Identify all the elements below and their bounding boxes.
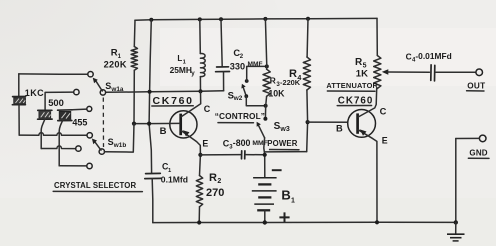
battery B1 plate short 1 xyxy=(258,183,271,185)
wire Q1 emitter lead xyxy=(181,131,200,155)
switch Sw2 wiper arrowhead xyxy=(241,84,245,89)
ground symbol stem xyxy=(455,222,457,234)
svg-text:-0.01MFd: -0.01MFd xyxy=(415,51,451,61)
svg-text:0.1Mfd: 0.1Mfd xyxy=(161,175,188,185)
junction dot bus-L1 xyxy=(198,17,202,21)
label minus xyxy=(272,169,282,171)
crystal Y3 455 bottom plate xyxy=(58,120,72,122)
svg-text:270: 270 xyxy=(206,187,224,199)
wiper arrow of R5 attenuator xyxy=(382,69,389,74)
switch Sw1b contact 2 xyxy=(76,146,81,151)
svg-text:OUT: OUT xyxy=(467,81,485,90)
underline GND xyxy=(468,157,489,159)
wire 500 row to contact 2 (with hop) xyxy=(41,146,75,149)
switch Sw1a wiper xyxy=(96,81,102,91)
battery B1 plate short 3 xyxy=(257,209,270,211)
svg-text:B: B xyxy=(336,124,343,134)
svg-text:w1b: w1b xyxy=(113,142,127,149)
svg-text:S: S xyxy=(108,137,114,147)
svg-text:10K: 10K xyxy=(268,89,285,99)
switch Sw1a wiper arrowhead xyxy=(93,78,98,84)
wire tank to base wire crossing xyxy=(148,92,151,124)
junction dot R3 top tap xyxy=(265,64,269,68)
wire Sw3 pivot down to power node xyxy=(264,138,265,178)
wire Q2 emitter lead xyxy=(358,130,377,223)
resistor R2 xyxy=(196,176,202,207)
crystal Y1 1KC top plate xyxy=(13,96,26,98)
wire ground riser xyxy=(455,139,457,223)
svg-text:C: C xyxy=(406,51,412,61)
inductor L1 xyxy=(200,53,205,76)
svg-text:ATTENUATOR: ATTENUATOR xyxy=(326,81,378,90)
junction dot bus-R3 xyxy=(263,17,267,21)
svg-text:GND: GND xyxy=(469,149,487,158)
underline CRYSTAL SELECTOR xyxy=(53,190,142,192)
crystal selector: left riser wire xyxy=(18,74,20,97)
switch Sw1b wiper xyxy=(95,142,101,150)
wire Q2 base lead xyxy=(308,121,357,123)
junction dot bus-ground symbol xyxy=(454,220,458,224)
wire 455 row to Sw1b contact 3 xyxy=(59,165,87,167)
wire Q1 base lead xyxy=(134,122,180,124)
junction dot bus-Q2 emitter xyxy=(375,220,379,224)
emitter arrow Q1 xyxy=(183,130,190,136)
wire battery bottom to ground bus xyxy=(264,210,266,222)
crystal Y2 500 top plate xyxy=(38,109,52,111)
resistor R3 xyxy=(263,69,270,96)
ground symbol bar 1 xyxy=(447,233,465,235)
svg-text:220K: 220K xyxy=(104,60,127,70)
wire Q2 collector lead xyxy=(358,89,377,118)
junction dot bus-C2 xyxy=(219,17,223,21)
capacitor C4 left plate xyxy=(430,65,432,81)
underline ATTENUATOR xyxy=(327,90,375,92)
wire bus to C2 top xyxy=(221,19,222,66)
capacitor C3 left plate xyxy=(241,151,243,159)
crystal Y2 500 bottom plate xyxy=(38,118,53,120)
wire emitter node to C3 xyxy=(200,154,240,156)
underline OUT xyxy=(467,90,484,92)
wire R4 bottom through Q2 base node to power wire xyxy=(306,90,309,152)
svg-text:330: 330 xyxy=(230,61,245,71)
battery B1 plate long 1 xyxy=(253,177,277,179)
capacitor C2 top plate xyxy=(217,66,229,68)
svg-text:E: E xyxy=(202,139,208,149)
wire Q1 collector lead xyxy=(181,91,201,117)
junction dot base-R1-Sw1b xyxy=(132,122,136,126)
crystal Y1 hatch xyxy=(16,99,26,104)
svg-text:B: B xyxy=(160,126,167,137)
svg-text:MMF: MMF xyxy=(252,140,267,147)
junction dot base-C1 string xyxy=(147,122,151,126)
svg-text:25MH: 25MH xyxy=(170,65,192,75)
crystal Y2 hatch xyxy=(41,112,51,117)
switch Sw3 wiper arrowhead xyxy=(257,122,261,127)
wire C1 bottom to ground bus corner xyxy=(151,179,154,223)
transistor Q1 envelope xyxy=(170,111,197,138)
svg-text:S: S xyxy=(105,81,111,91)
wire L1 bottom to tank node xyxy=(199,77,201,92)
svg-text:R: R xyxy=(209,172,217,184)
top supply bus wire xyxy=(135,18,377,20)
wire bus to L1 top xyxy=(199,19,202,53)
switch Sw3 wiper xyxy=(259,126,265,138)
underline CONTROL xyxy=(218,122,254,124)
junction dot power node xyxy=(263,153,267,157)
switch Sw1b wiper arrowhead xyxy=(92,139,97,145)
transistor Q2 base bar xyxy=(356,113,359,133)
wire GND terminal to ground riser xyxy=(456,137,480,139)
ground bus wire xyxy=(153,221,456,223)
wire 500 bottom lead to Sw1b contact 2 (crossing) xyxy=(41,119,45,148)
capacitor C1 top plate xyxy=(146,172,161,174)
crystal Y2 500 body xyxy=(39,112,51,118)
wire R2 bottom to ground bus xyxy=(198,207,200,223)
switch Sw1b contact 3 xyxy=(87,163,92,168)
wire 1KC top to Sw1a contact 1 xyxy=(19,73,88,75)
junction dot bus-R4 xyxy=(306,17,310,21)
wire Sw2 contact to R3 top node xyxy=(247,66,267,81)
svg-text:C: C xyxy=(380,107,387,117)
battery B1 plate long 3 xyxy=(254,203,274,205)
svg-text:w1a: w1a xyxy=(110,86,124,93)
junction dot bus-battery xyxy=(263,220,267,224)
wire 1KC bottom to Sw1b contact 1 (with hops) xyxy=(19,133,87,136)
transistor Q2 envelope xyxy=(348,110,376,138)
gang dashed link Sw1a-Sw1b xyxy=(102,98,104,148)
junction dot bus-Q1C net xyxy=(149,18,153,22)
wire bus corner to R1 top xyxy=(133,20,136,46)
resistor R4 xyxy=(303,57,310,90)
crystal Y3 hatch xyxy=(62,113,71,119)
svg-text:500: 500 xyxy=(48,97,64,108)
svg-text:y: y xyxy=(191,70,195,77)
paper mottling top left xyxy=(0,0,285,195)
switch Sw1a contact 1 xyxy=(88,72,93,77)
svg-text:B: B xyxy=(281,188,290,203)
switch Sw2 contact dot xyxy=(245,79,249,83)
resistor R1 xyxy=(131,47,137,71)
junction dot bus-R2 xyxy=(197,220,201,224)
transistor Q1 base bar xyxy=(179,114,182,136)
svg-text:1: 1 xyxy=(291,197,295,204)
svg-text:1KC: 1KC xyxy=(25,88,44,98)
crystal Y3 455 body xyxy=(59,111,71,119)
wire Q1 emitter node down to R2 xyxy=(199,155,202,176)
wire bus to R4 xyxy=(306,19,309,57)
svg-text:455: 455 xyxy=(72,117,87,127)
ground symbol bar 2 xyxy=(450,237,462,239)
svg-text:R: R xyxy=(289,68,297,80)
wire base wire down to C1 xyxy=(149,124,152,173)
label plus xyxy=(279,212,289,222)
junction dot emitter node xyxy=(198,153,202,157)
svg-text:E: E xyxy=(382,136,388,146)
wire C4 to OUT terminal xyxy=(436,71,476,73)
emitter arrow Q2 xyxy=(360,129,367,135)
wire C2 bottom lead to tank wire corner xyxy=(223,72,225,91)
wire R5 wiper to C4 xyxy=(387,71,429,73)
switch Sw1a contact 3 xyxy=(87,106,92,111)
resistor R5 attenuator xyxy=(374,56,381,89)
switch Sw3 contact dot xyxy=(263,117,267,121)
wire Sw2 pivot to R3 lower tap xyxy=(246,96,265,106)
svg-text:C: C xyxy=(204,104,211,114)
junction dot tank-L1-collector xyxy=(198,89,202,93)
capacitor C2 bottom plate xyxy=(216,71,230,73)
wire R1 bottom lead to base node xyxy=(133,70,135,123)
battery B1 plate short 2 xyxy=(258,196,271,198)
wire Sw1b pivot to base riser xyxy=(105,124,135,153)
svg-text:1K: 1K xyxy=(356,68,368,79)
paper mottling bottom xyxy=(0,198,496,246)
wire 1KC bottom lead xyxy=(18,105,20,135)
junction dot R3 lower tap xyxy=(264,104,268,108)
terminal GND xyxy=(479,135,486,142)
svg-text:4: 4 xyxy=(297,73,301,82)
switch Sw2 pivot dot xyxy=(244,94,248,98)
capacitor C1 bottom plate xyxy=(145,177,161,179)
svg-text:POWER: POWER xyxy=(267,139,298,148)
wire tank: Sw1a wiper to C2 corner xyxy=(106,91,224,93)
junction dot tank-vertical xyxy=(148,90,152,94)
capacitor C4 right plate xyxy=(434,65,436,81)
terminal OUT xyxy=(476,69,483,76)
svg-text:CRYSTAL SELECTOR: CRYSTAL SELECTOR xyxy=(54,181,136,190)
wire 455 top to contact 3 xyxy=(72,108,86,111)
switch Sw1a pivot xyxy=(100,90,105,95)
wire R3 bottom lead to Sw3 contact xyxy=(265,96,266,118)
wire R4 bottom corner to power node xyxy=(265,151,307,153)
svg-text:-800: -800 xyxy=(233,138,251,148)
svg-text:“CONTROL”: “CONTROL” xyxy=(215,111,265,121)
svg-text:w2: w2 xyxy=(233,95,243,102)
wire vertical bus to tank wire (C1 string top) xyxy=(150,20,152,92)
paper mottling band xyxy=(160,28,496,86)
capacitor C3 right plate xyxy=(244,151,246,159)
svg-text:w3: w3 xyxy=(279,126,289,133)
switch Sw1b pivot xyxy=(99,149,104,154)
wire 455 bottom lead down (crossings) xyxy=(59,121,62,166)
svg-text:2: 2 xyxy=(217,178,221,185)
wire C3 to power node xyxy=(246,154,265,156)
battery B1 plate long 2 xyxy=(252,190,277,192)
switch Sw1b contact 1 xyxy=(87,133,92,138)
junction dot R4-Q2 base xyxy=(306,120,310,124)
wire 500 top to Sw1a contact 2 xyxy=(45,92,73,110)
underline CK760 Q2 xyxy=(337,105,371,107)
crystal Y1 1KC body xyxy=(14,98,26,104)
wire bus to R3 xyxy=(265,19,266,69)
switch Sw2 wiper xyxy=(243,87,246,96)
wire bus corner to R5 xyxy=(376,18,378,55)
ground symbol bar 3 xyxy=(453,240,459,242)
crystal Y3 455 top plate and wire to Sw1a contact 3 xyxy=(58,109,73,111)
switch Sw1a contact 2 xyxy=(74,89,79,94)
underline POWER xyxy=(270,149,299,151)
underline CK760 Q1 xyxy=(152,105,193,107)
crystal Y1 1KC bottom plate xyxy=(12,104,25,106)
